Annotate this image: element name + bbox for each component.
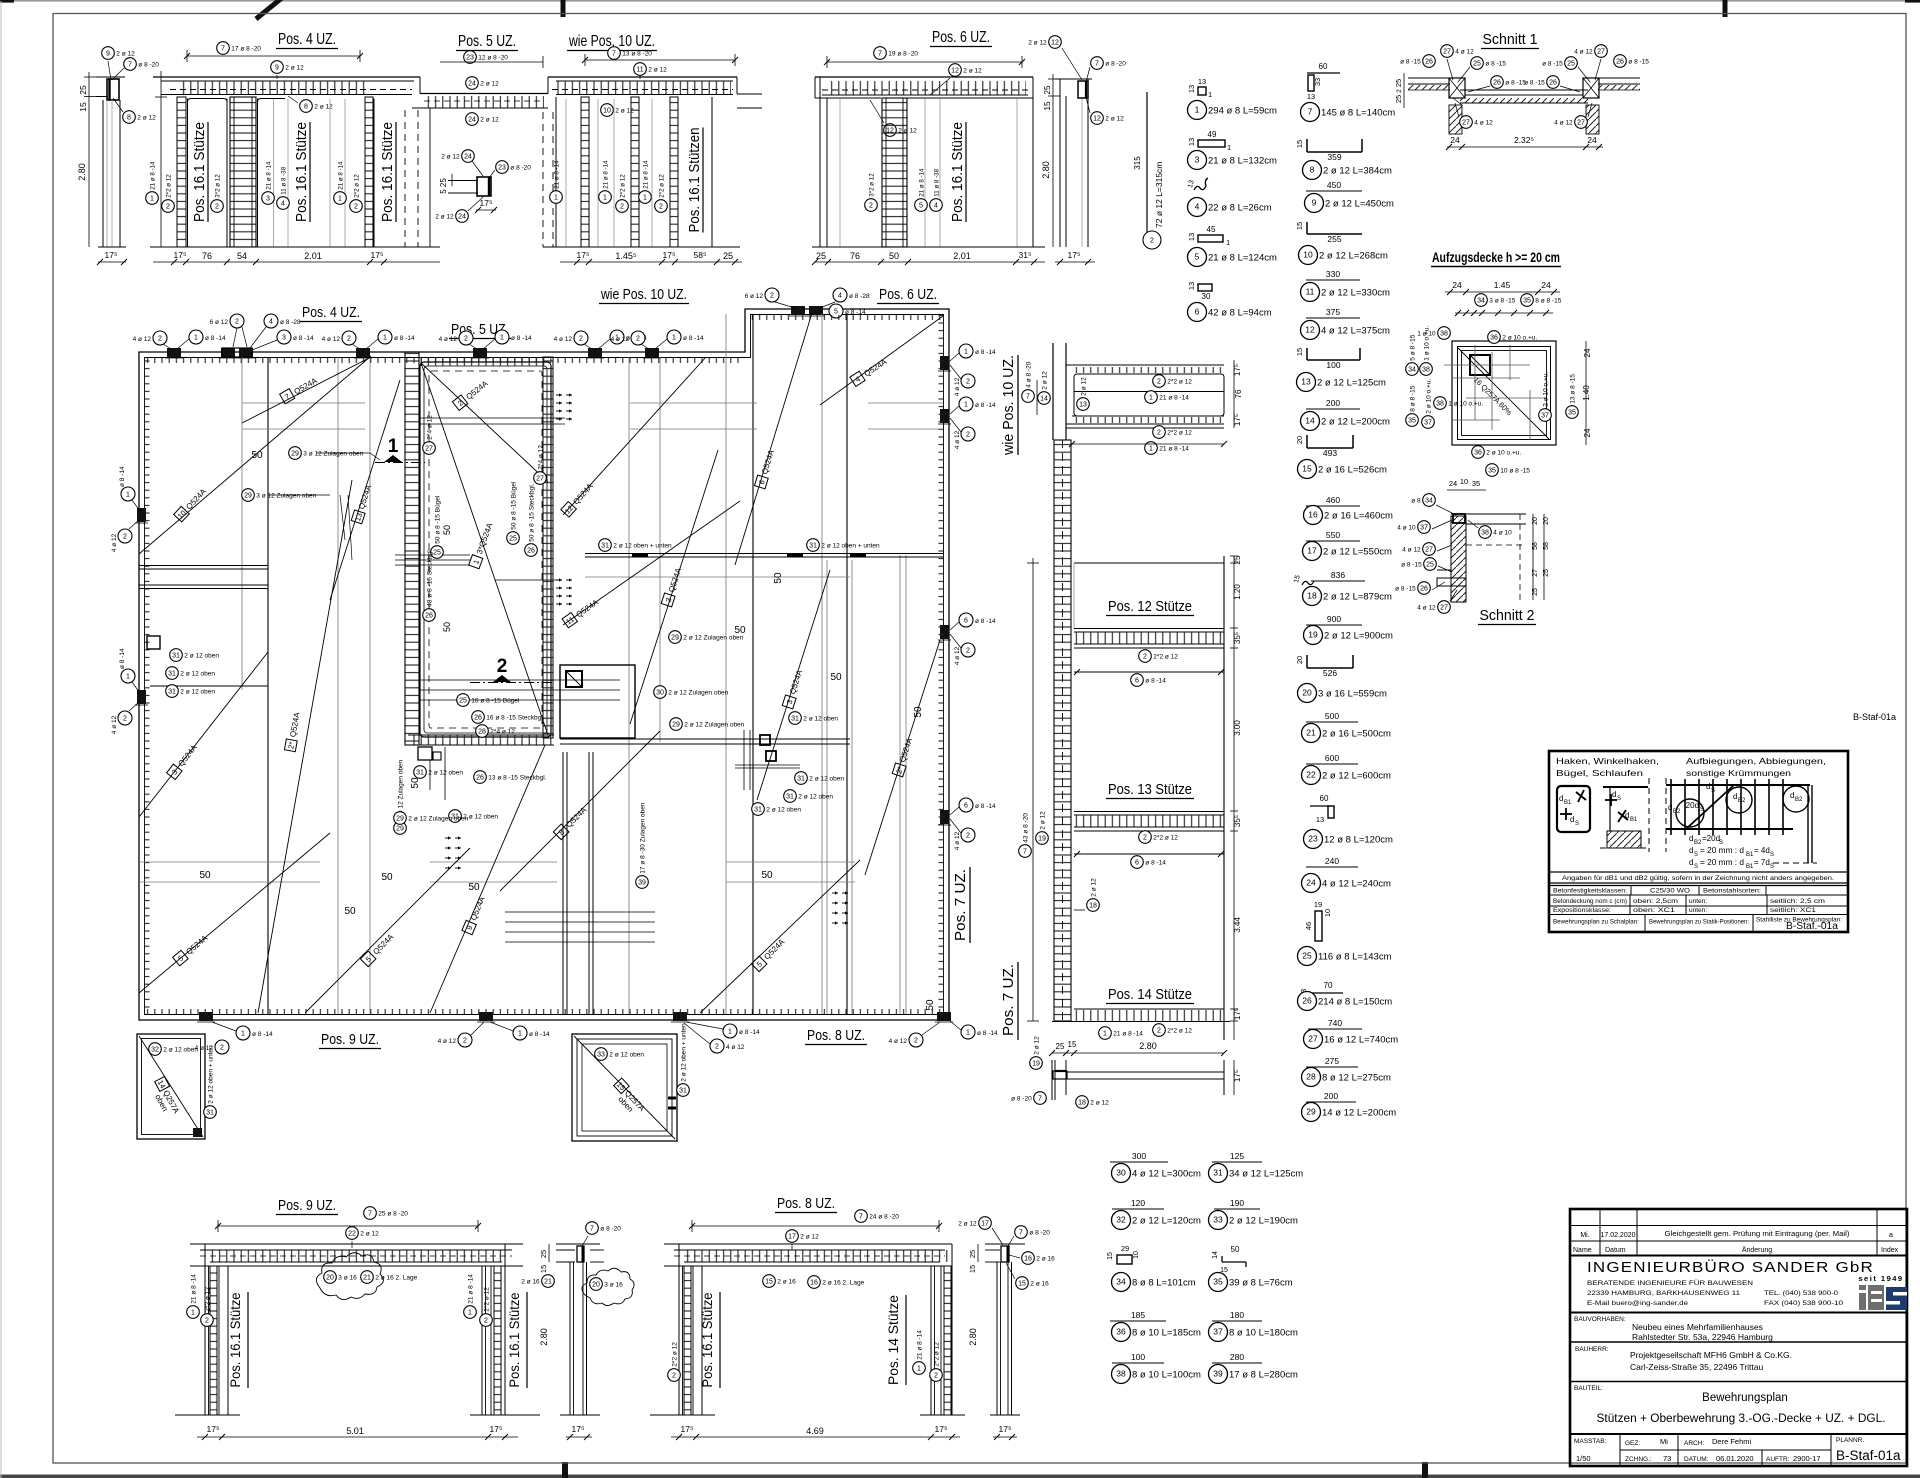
- svg-text:Stützen + Oberbewehrung 3.-OG.: Stützen + Oberbewehrung 3.-OG.-Decke + U…: [1597, 1413, 1886, 1425]
- svg-text:29: 29: [396, 815, 404, 822]
- svg-text:2 ø 12 Zulagen oben: 2 ø 12 Zulagen oben: [684, 722, 744, 729]
- svg-text:29: 29: [1121, 1244, 1129, 1253]
- svg-text:TEL. (040) 538 900-0: TEL. (040) 538 900-0: [1764, 1290, 1838, 1297]
- svg-text:2: 2: [966, 647, 970, 654]
- bar 25: [1315, 911, 1322, 941]
- circles around shaft: [1438, 327, 1451, 340]
- svg-text:S: S: [1700, 807, 1704, 813]
- svg-text:2: 2: [966, 832, 970, 839]
- svg-text:58⁵: 58⁵: [694, 250, 707, 260]
- svg-text:2: 2: [914, 1037, 918, 1044]
- right dims: [1233, 360, 1235, 428]
- title block: [1570, 1209, 1907, 1466]
- Schnitt1 circles: [1423, 55, 1436, 68]
- svg-text:18: 18: [1078, 1099, 1086, 1106]
- bar 36: [1110, 1320, 1166, 1322]
- svg-text:25: 25: [1473, 60, 1481, 67]
- svg-text:2 ø 12: 2 ø 12: [648, 67, 667, 74]
- svg-text:2 ø 16 2. Lage: 2 ø 16 2. Lage: [375, 1275, 417, 1282]
- Q257A square 2: [572, 1034, 677, 1141]
- svg-text:21 ø 8 -14: 21 ø 8 -14: [1159, 446, 1189, 453]
- core diag labels: [452, 377, 490, 410]
- core circles: [423, 442, 436, 455]
- svg-text:26: 26: [476, 774, 484, 781]
- svg-text:11: 11: [636, 66, 643, 73]
- svg-text:1.45⁵: 1.45⁵: [615, 251, 637, 261]
- svg-text:2*4 ø 12: 2*4 ø 12: [490, 729, 515, 736]
- svg-text:25: 25: [1302, 950, 1312, 960]
- svg-text:d: d: [1570, 815, 1574, 824]
- svg-text:2 ø 12 L=125cm: 2 ø 12 L=125cm: [1317, 378, 1386, 389]
- svg-text:ø 8 -14: ø 8 -14: [119, 648, 126, 669]
- svg-text:500: 500: [1325, 711, 1339, 721]
- svg-text:Aufzugsdecke h >= 20 cm: Aufzugsdecke h >= 20 cm: [1432, 250, 1560, 265]
- svg-text:2 ø 12 L=330cm: 2 ø 12 L=330cm: [1321, 288, 1390, 299]
- Schnitt1 dims: [1447, 146, 1603, 148]
- svg-text:25: 25: [1056, 1042, 1065, 1051]
- svg-text:7: 7: [221, 45, 225, 52]
- core diagonals: [421, 363, 548, 735]
- diagonal 5 Q524A: [305, 848, 470, 1013]
- svg-text:d: d: [1689, 846, 1693, 855]
- svg-text:28: 28: [478, 728, 486, 735]
- svg-text:7: 7: [1308, 106, 1313, 116]
- svg-text:8: 8: [1310, 164, 1315, 174]
- svg-text:seitlich: 2,5 cm: seitlich: 2,5 cm: [1770, 898, 1825, 905]
- svg-text:8: 8: [304, 103, 308, 110]
- svg-text:17: 17: [981, 1220, 989, 1227]
- svg-text:Pos. 16.1 Stütze: Pos. 16.1 Stütze: [293, 122, 310, 222]
- svg-text:20: 20: [1302, 687, 1312, 697]
- svg-text:2 ø 12: 2 ø 12: [958, 1221, 977, 1228]
- bar 21: [1306, 721, 1358, 723]
- svg-text:34 ø 12 L=125cm: 34 ø 12 L=125cm: [1229, 1169, 1303, 1180]
- svg-text:27: 27: [1532, 569, 1539, 577]
- svg-text:50: 50: [199, 870, 211, 881]
- edge tick bands: [145, 358, 150, 1014]
- svg-text:1: 1: [388, 436, 399, 457]
- svg-text:25: 25: [459, 697, 467, 704]
- svg-text:1: 1: [1149, 394, 1153, 401]
- svg-text:25: 25: [1394, 79, 1403, 87]
- bar 17: [1306, 540, 1360, 542]
- svg-text:1: 1: [383, 334, 387, 341]
- svg-text:24: 24: [1541, 280, 1551, 290]
- svg-text:B1: B1: [1630, 817, 1638, 823]
- svg-text:ø 8 -28: ø 8 -28: [280, 319, 301, 326]
- svg-text:21 ø 8 -14: 21 ø 8 -14: [265, 161, 272, 190]
- svg-text:4.69: 4.69: [806, 1426, 824, 1436]
- Pos9 bottom dims: [175, 1414, 240, 1416]
- svg-text:25: 25: [968, 1250, 977, 1258]
- svg-text:2 ø 12: 2 ø 12: [480, 117, 499, 124]
- svg-text:21 ø 8 -14: 21 ø 8 -14: [467, 1274, 474, 1304]
- svg-text:33: 33: [1313, 78, 1322, 86]
- svg-text:= 4d: = 4d: [1754, 846, 1770, 855]
- svg-text:4 ø 12: 4 ø 12: [954, 831, 961, 850]
- svg-text:36: 36: [1116, 1326, 1126, 1336]
- svg-text:2: 2: [205, 1317, 209, 1324]
- svg-text:2 ø 12 oben + unten: 2 ø 12 oben + unten: [207, 1045, 214, 1104]
- top dims: [1445, 291, 1560, 293]
- shaft plan squares: [1452, 341, 1556, 445]
- svg-text:50 ø 8 -15 Bügel: 50 ø 8 -15 Bügel: [510, 481, 517, 530]
- diagonal 4 Q524A: [820, 316, 943, 405]
- svg-text:34: 34: [1116, 1276, 1126, 1286]
- svg-text:Pos. 14 Stütze: Pos. 14 Stütze: [885, 1295, 901, 1385]
- svg-text:2: 2: [770, 292, 774, 299]
- svg-text:2 ø 12 Zulagen oben: 2 ø 12 Zulagen oben: [397, 759, 404, 819]
- svg-text:2: 2: [659, 203, 663, 210]
- svg-text:31: 31: [168, 688, 176, 695]
- svg-text:31: 31: [679, 1087, 687, 1094]
- svg-text:9: 9: [106, 50, 110, 57]
- svg-text:ø 8 -14: ø 8 -14: [1145, 860, 1166, 867]
- svg-text:20: 20: [1543, 517, 1550, 525]
- svg-text:2 ø 12 oben: 2 ø 12 oben: [428, 770, 463, 777]
- svg-text:2: 2: [123, 533, 127, 540]
- left edge clusters: [121, 487, 135, 501]
- svg-text:ø 8 -20: ø 8 -20: [600, 1226, 621, 1233]
- svg-text:38: 38: [1440, 330, 1448, 337]
- svg-text:Q524A: Q524A: [184, 486, 208, 511]
- svg-text:4 ø 12: 4 ø 12: [438, 1038, 457, 1045]
- svg-text:4: 4: [281, 200, 285, 207]
- svg-text:Q524A: Q524A: [176, 743, 199, 769]
- svg-text:24: 24: [1450, 135, 1460, 145]
- svg-text:4 ø 12: 4 ø 12: [439, 336, 458, 343]
- bar 8: [1307, 151, 1362, 153]
- svg-text:24 ø 8 -20: 24 ø 8 -20: [869, 1214, 899, 1221]
- top-left black mark: [0, 0, 14, 3]
- svg-text:2*2 ø 12: 2*2 ø 12: [1167, 379, 1192, 386]
- svg-text:2: 2: [869, 202, 873, 209]
- svg-text:550: 550: [1326, 530, 1340, 540]
- svg-text:31: 31: [797, 775, 805, 782]
- svg-text:50: 50: [410, 777, 421, 789]
- top anchor circle clusters: [153, 331, 167, 345]
- svg-text:ø 8 -14: ø 8 -14: [252, 1031, 273, 1038]
- svg-text:21 ø 8 -14: 21 ø 8 -14: [149, 161, 156, 190]
- svg-text:2: 2: [215, 203, 219, 210]
- bar 19: [1306, 624, 1362, 626]
- svg-text:2 ø 12 oben: 2 ø 12 oben: [798, 794, 833, 801]
- svg-text:4 ø 8 -20: 4 ø 8 -20: [1025, 361, 1032, 387]
- Pos8 bottom dims: [650, 1414, 715, 1416]
- shaft near core (left big opening): [560, 665, 635, 738]
- svg-text:B1: B1: [1564, 800, 1572, 806]
- svg-text:1: 1: [554, 194, 558, 201]
- core cross lines: [420, 417, 565, 419]
- svg-text:33: 33: [597, 1051, 605, 1058]
- svg-text:50 ø 8 -15 Bügel: 50 ø 8 -15 Bügel: [434, 495, 441, 544]
- svg-text:21 ø 8 -14: 21 ø 8 -14: [916, 1330, 923, 1360]
- bar 35: [1222, 1261, 1246, 1263]
- svg-text:2 ø 12: 2 ø 12: [963, 68, 982, 75]
- svg-text:Betonstahlsorten:: Betonstahlsorten:: [1703, 888, 1761, 895]
- bar 11: [1306, 279, 1360, 281]
- svg-text:2: 2: [966, 431, 970, 438]
- svg-text:32: 32: [1116, 1214, 1126, 1224]
- Pos8 right column: [930, 1266, 932, 1415]
- svg-text:1: 1: [603, 194, 607, 201]
- svg-text:Neubeu eines Mehrfamilienhause: Neubeu eines Mehrfamilienhauses: [1632, 1322, 1763, 1332]
- svg-text:1: 1: [964, 348, 968, 355]
- svg-text:4 ø 12: 4 ø 12: [1574, 49, 1593, 56]
- svg-text:ARCH:: ARCH:: [1684, 1440, 1704, 1447]
- svg-text:ø 8 -14: ø 8 -14: [394, 335, 415, 342]
- svg-text:29: 29: [1306, 1106, 1316, 1116]
- svg-text:17⁵: 17⁵: [1233, 414, 1242, 426]
- svg-text:19 ø 8 -20: 19 ø 8 -20: [888, 51, 918, 58]
- left page edge: [0, 1, 2, 1478]
- svg-text:4 ø 10: 4 ø 10: [1397, 525, 1416, 532]
- right edge clusters: [959, 344, 973, 358]
- svg-text:Q524A: Q524A: [898, 736, 914, 763]
- svg-text:14: 14: [1305, 415, 1315, 425]
- svg-text:18: 18: [1307, 590, 1317, 600]
- Schnitt2 right dims: [1532, 514, 1534, 600]
- svg-text:15: 15: [1293, 574, 1302, 583]
- svg-text:4 ø 12: 4 ø 12: [1554, 120, 1573, 127]
- svg-text:9: 9: [1312, 197, 1317, 207]
- svg-text:17⁵: 17⁵: [999, 1424, 1012, 1434]
- svg-text:3: 3: [282, 334, 286, 341]
- Pos9 middle single column: [556, 1243, 600, 1245]
- svg-text:4 ø 10: 4 ø 10: [1493, 530, 1512, 537]
- svg-text:ø 8 -15: ø 8 -15: [1524, 80, 1545, 87]
- svg-text:ø 8 -20: ø 8 -20: [1011, 1096, 1032, 1103]
- svg-text:116 ø 8 L=143cm: 116 ø 8 L=143cm: [1318, 952, 1392, 963]
- svg-text:2: 2: [123, 715, 127, 722]
- svg-text:Bewehrungsplan zu Schalplan:: Bewehrungsplan zu Schalplan:: [1553, 919, 1639, 926]
- svg-text:2 ø 12 oben + unten: 2 ø 12 oben + unten: [821, 543, 880, 550]
- svg-text:8: 8: [127, 114, 131, 121]
- svg-text:2 ø 16: 2 ø 16: [1030, 1281, 1049, 1288]
- wiePos10 columns: [542, 112, 544, 247]
- svg-text:35: 35: [1213, 1276, 1223, 1286]
- svg-text:4 ø 12 L=240cm: 4 ø 12 L=240cm: [1322, 879, 1391, 890]
- svg-text:50: 50: [889, 251, 899, 261]
- arrows rows (rebar ends): [556, 394, 562, 396]
- svg-text:50: 50: [468, 882, 480, 893]
- svg-text:1: 1: [150, 195, 154, 202]
- svg-text:31: 31: [168, 670, 176, 677]
- svg-text:2 ø 10 o.+u.: 2 ø 10 o.+u.: [1502, 335, 1537, 342]
- svg-text:Aufbiegungen, Abbiegungen,: Aufbiegungen, Abbiegungen,: [1686, 756, 1826, 766]
- svg-text:31: 31: [786, 793, 794, 800]
- legend table: [1549, 871, 1848, 873]
- svg-text:Schnitt 2: Schnitt 2: [1480, 607, 1535, 624]
- svg-text:836: 836: [1331, 570, 1345, 580]
- svg-text:24: 24: [1452, 280, 1462, 290]
- svg-text:ø 8 -14: ø 8 -14: [529, 1031, 550, 1038]
- svg-text:31: 31: [754, 806, 762, 813]
- svg-text:1: 1: [471, 558, 481, 565]
- svg-text:2*4 ø 12: 2*4 ø 12: [537, 445, 544, 470]
- svg-text:2 ø 12 oben: 2 ø 12 oben: [803, 716, 838, 723]
- svg-text:29: 29: [671, 634, 679, 641]
- svg-text:26: 26: [1549, 79, 1557, 86]
- svg-text:3*Q524A: 3*Q524A: [475, 521, 495, 555]
- svg-text:Pos. 4 UZ.: Pos. 4 UZ.: [278, 31, 336, 48]
- svg-text:526: 526: [1323, 668, 1337, 678]
- svg-text:5: 5: [1195, 251, 1200, 261]
- svg-text:21 ø 8 -14: 21 ø 8 -14: [918, 168, 925, 197]
- svg-text:Rahlstedter Str. 53a, 22946 Ha: Rahlstedter Str. 53a, 22946 Hamburg: [1632, 1332, 1773, 1342]
- svg-text:2: 2: [672, 1372, 676, 1379]
- svg-text:ZCHNG.:: ZCHNG.:: [1625, 1456, 1652, 1463]
- svg-text:13: 13: [1187, 85, 1196, 93]
- svg-text:15: 15: [539, 1265, 548, 1273]
- svg-text:Index: Index: [1881, 1247, 1899, 1254]
- diagonal 9 Q524A: [430, 745, 545, 1013]
- svg-text:1: 1: [241, 1030, 245, 1037]
- svg-text:2: 2: [235, 318, 239, 325]
- svg-text:ø 8 -14: ø 8 -14: [739, 1029, 760, 1036]
- svg-text:27: 27: [536, 475, 544, 482]
- svg-text:Q524A: Q524A: [357, 483, 373, 510]
- svg-text:ø 8 -28: ø 8 -28: [849, 293, 870, 300]
- svg-text:ø 8 -20: ø 8 -20: [138, 62, 159, 69]
- svg-text:32: 32: [151, 1046, 159, 1053]
- svg-text:3 ø 8 -15: 3 ø 8 -15: [1489, 298, 1515, 305]
- svg-text:12: 12: [1305, 324, 1315, 334]
- svg-text:Expositionsklasse:: Expositionsklasse:: [1553, 907, 1611, 914]
- svg-text:15: 15: [1295, 348, 1304, 356]
- svg-text:2*: 2*: [286, 741, 296, 750]
- svg-text:14: 14: [1040, 395, 1048, 402]
- svg-text:20: 20: [1295, 436, 1304, 444]
- svg-text:29: 29: [244, 492, 252, 499]
- bar 31: [1212, 1161, 1262, 1163]
- svg-text:1: 1: [468, 1309, 472, 1316]
- svg-text:Name: Name: [1573, 1247, 1592, 1254]
- Pos8 left column: [678, 1244, 680, 1415]
- svg-text:2: 2: [1157, 429, 1161, 436]
- svg-text:10 ø 8 -15: 10 ø 8 -15: [1500, 468, 1530, 475]
- svg-text:30: 30: [1202, 292, 1211, 301]
- svg-text:4 ø 12: 4 ø 12: [111, 715, 118, 734]
- svg-text:ø 8: ø 8: [1411, 498, 1421, 505]
- svg-text:2 ø 12: 2 ø 12: [1105, 116, 1124, 123]
- bottom dark bar: [0, 1475, 1920, 1478]
- diagonal 12 Q524A: [563, 357, 706, 515]
- svg-text:25: 25: [1043, 85, 1052, 94]
- svg-text:7: 7: [878, 50, 882, 57]
- fold mark vertical bottom 1: [562, 1462, 568, 1478]
- svg-text:50: 50: [913, 706, 924, 718]
- svg-text:2 ø 10 o.+u.: 2 ø 10 o.+u.: [1486, 450, 1521, 457]
- svg-text:73: 73: [1663, 1454, 1671, 1463]
- svg-text:14: 14: [1212, 1251, 1219, 1259]
- svg-text:21 ø 8 -14: 21 ø 8 -14: [1159, 395, 1189, 402]
- svg-text:50 ø 8 -15 Steckbgl.: 50 ø 8 -15 Steckbgl.: [528, 483, 535, 541]
- svg-text:1: 1: [126, 673, 130, 680]
- svg-text:17⁵: 17⁵: [1233, 1008, 1242, 1020]
- Pos9 cloud with circles 20/21: [316, 1253, 383, 1300]
- bar 28: [1306, 1066, 1358, 1068]
- svg-text:Haken, Winkelhaken,: Haken, Winkelhaken,: [1556, 756, 1659, 766]
- svg-text:27: 27: [1440, 604, 1448, 611]
- svg-text:29: 29: [291, 450, 299, 457]
- svg-text:37: 37: [1424, 419, 1432, 426]
- svg-text:493: 493: [1323, 448, 1337, 458]
- svg-text:2 ø 16: 2 ø 16: [521, 1279, 540, 1286]
- svg-text:Pos. 12 Stütze: Pos. 12 Stütze: [1108, 599, 1192, 615]
- svg-text:25: 25: [1543, 569, 1550, 577]
- svg-text:37: 37: [1541, 412, 1549, 419]
- svg-text:2 ø 16 L=500cm: 2 ø 16 L=500cm: [1322, 729, 1391, 740]
- svg-text:Pos. 7 UZ.: Pos. 7 UZ.: [952, 869, 969, 941]
- svg-text:26: 26: [1616, 58, 1624, 65]
- diagonal 3 Q524A: [139, 652, 268, 817]
- svg-text:6: 6: [964, 802, 968, 809]
- bar 20: [1307, 667, 1353, 669]
- svg-text:4 ø 12: 4 ø 12: [954, 646, 961, 665]
- svg-text:2: 2: [966, 378, 970, 385]
- Pos9 left column: [204, 1244, 206, 1415]
- hook symbol: [1603, 786, 1648, 788]
- bottom dims: [1052, 1052, 1224, 1054]
- bar 27: [1308, 1028, 1362, 1030]
- svg-text:1.45: 1.45: [1494, 280, 1511, 290]
- Pos8 right single column: [985, 1243, 1025, 1245]
- svg-text:34: 34: [1408, 366, 1416, 373]
- svg-text:S: S: [1694, 852, 1698, 858]
- svg-text:12: 12: [1051, 39, 1059, 46]
- svg-text:10: 10: [603, 107, 611, 114]
- svg-text:2 ø 12 oben: 2 ø 12 oben: [180, 671, 215, 678]
- svg-text:24: 24: [458, 213, 466, 220]
- iBS logo: [1859, 1285, 1907, 1310]
- svg-text:10: 10: [1303, 249, 1313, 259]
- svg-text:2 ø 10 o.+u.: 2 ø 10 o.+u.: [1542, 372, 1549, 407]
- svg-text:ø 8 -14: ø 8 -14: [975, 402, 996, 409]
- Schnitt2 wall: [1451, 516, 1466, 602]
- svg-text:8 ø 8 -15: 8 ø 8 -15: [1535, 298, 1561, 305]
- svg-text:25: 25: [509, 535, 517, 542]
- svg-text:35: 35: [1488, 467, 1496, 474]
- svg-text:100: 100: [1131, 1352, 1145, 1362]
- svg-text:2*2 ø 12: 2*2 ø 12: [658, 174, 665, 198]
- svg-text:Pos. 8 UZ.: Pos. 8 UZ.: [777, 1195, 835, 1212]
- small column foot detail: [1051, 1060, 1053, 1100]
- svg-text:Pos. 6 UZ.: Pos. 6 UZ.: [879, 286, 937, 303]
- svg-text:19: 19: [1308, 629, 1318, 639]
- svg-text:Q524A: Q524A: [788, 668, 804, 695]
- svg-text:2 ø 16 L=460cm: 2 ø 16 L=460cm: [1324, 511, 1393, 522]
- dark corner box: [1470, 355, 1490, 375]
- svg-text:17: 17: [1307, 545, 1317, 555]
- svg-text:50: 50: [830, 672, 842, 683]
- svg-text:13: 13: [1198, 77, 1206, 86]
- svg-text:GEZ:: GEZ:: [1625, 1440, 1640, 1447]
- svg-text:d: d: [1790, 791, 1794, 800]
- bend diagram: [1666, 784, 1810, 786]
- svg-text:38: 38: [1481, 529, 1489, 536]
- svg-text:Änderung: Änderung: [1742, 1246, 1772, 1254]
- svg-text:1: 1: [1103, 1030, 1107, 1037]
- bar 37: [1212, 1320, 1262, 1322]
- svg-text:21 ø 8 -14: 21 ø 8 -14: [1113, 1031, 1143, 1038]
- interior circle labels: [170, 649, 183, 662]
- svg-text:39: 39: [638, 879, 646, 886]
- svg-text:ø 8 -14: ø 8 -14: [293, 335, 314, 342]
- svg-text:2: 2: [166, 203, 170, 210]
- svg-text:B2: B2: [1738, 798, 1746, 804]
- svg-text:50: 50: [1231, 1245, 1240, 1254]
